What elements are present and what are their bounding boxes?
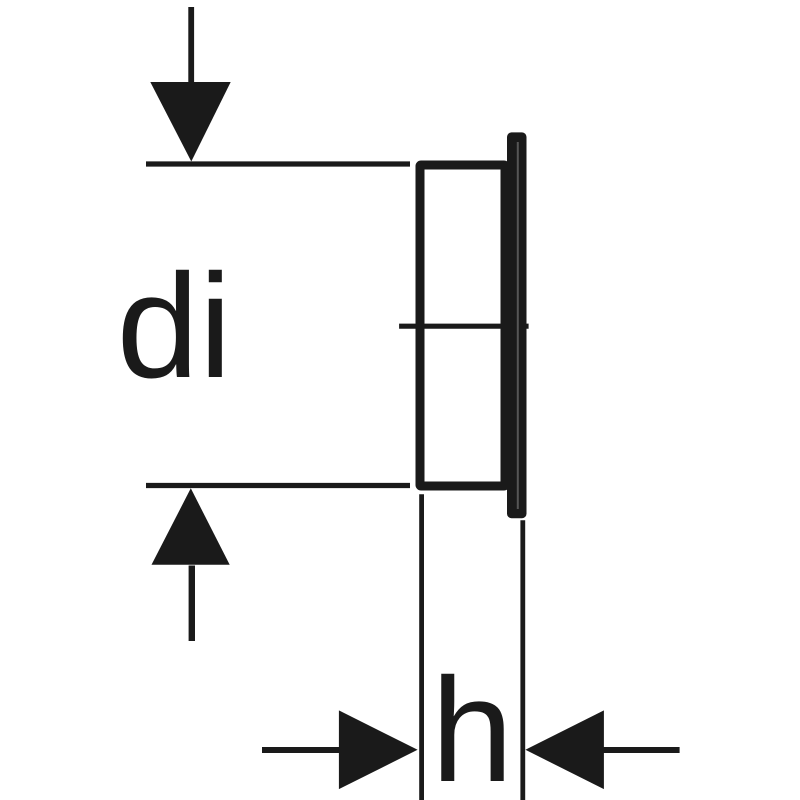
svg-text:di: di (117, 244, 232, 409)
svg-text:h: h (431, 648, 513, 800)
